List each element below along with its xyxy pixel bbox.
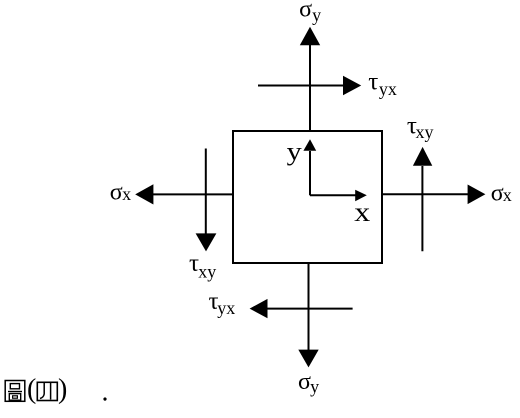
label sigma-y top (299, 0, 321, 25)
svg-text:y: y (287, 138, 302, 167)
svg-text:σ: σ (110, 179, 123, 205)
label sigma-x left (110, 179, 131, 205)
svg-text:τ: τ (368, 69, 378, 96)
arrow sigma-x right (rightward) (382, 185, 485, 205)
svg-text:): ) (58, 374, 67, 405)
svg-text:y: y (310, 376, 319, 396)
arrow tau-xy right (upward) (413, 147, 432, 251)
svg-text:σ: σ (299, 0, 312, 22)
caption character SI (four) drawn as strokes (37, 382, 57, 400)
label tau-yx bottom (209, 288, 236, 318)
arrow sigma-x left (leftward) (135, 184, 233, 204)
svg-text:(: ( (27, 374, 36, 405)
svg-text:x: x (503, 185, 512, 205)
y axis arrow (303, 139, 316, 195)
svg-text:x: x (354, 198, 370, 227)
label tau-xy left (189, 250, 216, 281)
svg-text:σ: σ (298, 369, 311, 395)
caption character TU (figure) drawn as strokes (5, 381, 25, 402)
svg-text:.: . (102, 377, 109, 408)
label sigma-y bottom (298, 369, 319, 396)
label tau-yx top (368, 69, 397, 100)
label tau-xy right (407, 113, 434, 143)
svg-text:yx: yx (379, 79, 397, 99)
arrow sigma-y top (upward) (300, 27, 320, 131)
x axis arrow (310, 190, 367, 201)
arrow tau-yx top (rightward) (258, 76, 361, 96)
label sigma-x right (491, 180, 512, 206)
arrow sigma-y bottom (downward) (298, 263, 318, 367)
stress element square (233, 131, 382, 263)
arrow tau-xy left (downward) (196, 149, 217, 252)
svg-text:yx: yx (217, 298, 235, 318)
svg-text:y: y (312, 5, 321, 25)
arrow tau-yx bottom (leftward) (250, 299, 353, 318)
svg-text:xy: xy (198, 261, 216, 281)
svg-text:xy: xy (416, 122, 434, 142)
svg-text:x: x (122, 184, 131, 204)
